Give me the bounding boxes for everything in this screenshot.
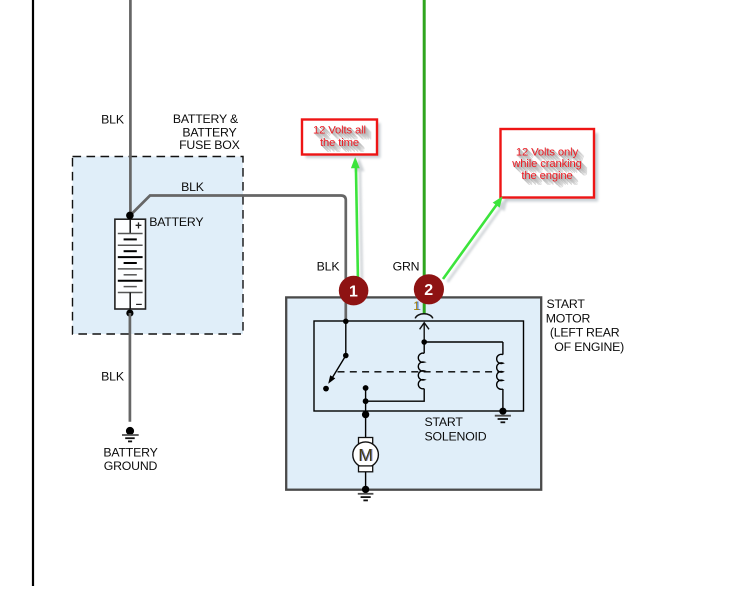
node 1 circle marker bbox=[339, 276, 369, 306]
svg-text:1: 1 bbox=[349, 283, 358, 300]
switch input wire bbox=[345, 321, 347, 356]
callout arrow 1 bbox=[351, 157, 360, 277]
page left border line bbox=[32, 0, 34, 586]
svg-text:BLK: BLK bbox=[101, 113, 125, 127]
label BATTERY & BATTERY FUSE BOX bbox=[173, 112, 240, 152]
svg-text:BATTERY &: BATTERY & bbox=[173, 112, 239, 126]
svg-text:BLK: BLK bbox=[317, 260, 341, 274]
pull-in coil L1 bbox=[418, 342, 424, 389]
wire BLK battery to node 1 and down to start motor bbox=[130, 196, 346, 322]
svg-text:–: – bbox=[136, 299, 143, 311]
hold-in coil L2 bbox=[497, 342, 503, 411]
junction dot battery negative bbox=[126, 310, 133, 317]
junction dot battery positive bbox=[126, 212, 134, 220]
svg-text:BATTERY: BATTERY bbox=[149, 215, 203, 229]
wire coil top to hold-in coil bbox=[424, 341, 503, 343]
svg-text:BLK: BLK bbox=[101, 369, 125, 383]
switch arm with arrowhead bbox=[328, 356, 346, 384]
motor ground bbox=[358, 486, 374, 501]
wire from output contact down bbox=[365, 388, 367, 415]
svg-text:BLK: BLK bbox=[181, 180, 205, 194]
battery B1 bbox=[115, 219, 146, 310]
callout arrow 1 shadow bbox=[355, 159, 364, 279]
junction dot coil tap bbox=[363, 398, 369, 404]
wire BLK from top to battery bbox=[129, 0, 132, 213]
solenoid inner box bbox=[314, 321, 524, 411]
junction dot motor feed bbox=[362, 411, 369, 418]
svg-text:2: 2 bbox=[424, 282, 433, 299]
svg-text:while cranking: while cranking bbox=[511, 158, 582, 170]
svg-text:SOLENOID: SOLENOID bbox=[425, 430, 487, 444]
callout box 1 bbox=[302, 120, 377, 155]
svg-text:START: START bbox=[425, 415, 464, 429]
wire to motor bbox=[365, 415, 367, 438]
callout arrow 2 shadow bbox=[448, 199, 508, 282]
svg-text:M: M bbox=[358, 445, 373, 465]
svg-text:1: 1 bbox=[413, 301, 419, 313]
svg-text:+: + bbox=[135, 220, 142, 232]
svg-text:OF ENGINE): OF ENGINE) bbox=[554, 340, 624, 354]
junction dot node 1 on solenoid box bbox=[343, 319, 349, 325]
battery ground symbol bbox=[122, 427, 139, 442]
connector pin 1 male arrow bbox=[420, 323, 429, 342]
wire coil bottom link bbox=[366, 389, 425, 402]
switch contact dot bbox=[323, 386, 329, 392]
switch output contact dot bbox=[363, 385, 369, 391]
mechanical link dashed line bbox=[338, 371, 502, 373]
callout box 1 shadow bbox=[306, 123, 381, 158]
svg-text:START: START bbox=[547, 297, 586, 311]
battery fuse box (dashed) bbox=[73, 157, 244, 335]
solenoid ground bbox=[495, 408, 511, 423]
wire GRN from top to start motor pin 1 bbox=[423, 0, 426, 314]
motor M1 bbox=[353, 438, 379, 472]
node 2 circle marker bbox=[414, 274, 444, 304]
label START SOLENOID bbox=[425, 415, 487, 444]
svg-text:the engine: the engine bbox=[521, 170, 572, 182]
svg-text:FUSE BOX: FUSE BOX bbox=[179, 138, 240, 152]
svg-text:BATTERY: BATTERY bbox=[103, 446, 157, 460]
start motor box bbox=[286, 297, 541, 489]
junction dot coil top bbox=[421, 339, 427, 345]
callout arrow 2 bbox=[443, 196, 503, 279]
label BATTERY GROUND bbox=[103, 446, 157, 474]
callout box 2 shadow bbox=[505, 133, 599, 202]
connector pin 1 female arc bbox=[415, 314, 433, 319]
wire motor to ground bbox=[365, 472, 367, 490]
svg-text:(LEFT REAR: (LEFT REAR bbox=[550, 326, 620, 340]
label START MOTOR (LEFT REAR OF ENGINE) bbox=[546, 297, 624, 354]
switch pivot dot bbox=[343, 353, 349, 359]
svg-text:12 Volts only: 12 Volts only bbox=[516, 147, 579, 159]
svg-text:GROUND: GROUND bbox=[104, 459, 158, 473]
svg-text:the time: the time bbox=[320, 137, 359, 149]
svg-text:GRN: GRN bbox=[393, 260, 420, 274]
wire BLK battery negative down to ground bbox=[129, 313, 132, 422]
svg-text:MOTOR: MOTOR bbox=[546, 311, 591, 325]
svg-text:12 Volts all: 12 Volts all bbox=[313, 125, 366, 137]
callout box 2 bbox=[501, 129, 595, 198]
